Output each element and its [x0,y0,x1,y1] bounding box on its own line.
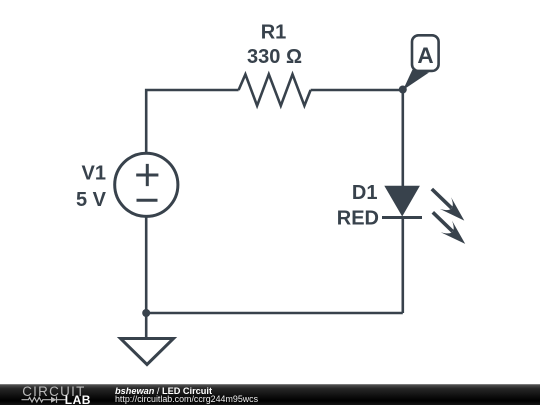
LED arrow 2 head [441,221,466,244]
LED arrow 1 head [440,197,465,220]
diode D1 LED triangle [384,186,420,217]
wire: resistor to node A junction [311,89,403,92]
svg-text:D1: D1 [352,182,378,204]
svg-text:5 V: 5 V [76,189,107,211]
svg-text:V1: V1 [82,163,106,185]
voltage source V1 circle [115,153,178,216]
svg-text:R1: R1 [261,22,287,44]
wire: bottom horizontal [146,312,403,315]
wire: node A junction down to LED anode [401,90,404,187]
footer line 1 [115,387,212,396]
LED arrow 1 shaft [432,189,452,208]
wire: LED cathode down to bottom corner [401,218,404,314]
node A pointer wedge [403,70,429,91]
ground junction dot [142,309,150,317]
svg-text:LAB: LAB [65,393,91,405]
ground symbol triangle [121,339,174,365]
diode D1 cathode bar [382,216,422,219]
wire: V1 bottom lead down to ground junction [145,217,148,314]
svg-text:A: A [417,43,433,68]
LED arrow 2 shaft [433,212,453,231]
node A junction dot [399,86,407,94]
node A label box [412,35,439,71]
svg-text:RED: RED [337,208,379,230]
V1 minus sign [137,199,158,202]
footer line 2 [115,395,258,404]
wire: ground stub [145,313,148,339]
footer CircuitLab logo [0,384,100,405]
svg-text:330 Ω: 330 Ω [247,46,302,68]
footer bar [0,384,540,405]
wire: V1 top lead up and right to resistor [146,90,238,153]
resistor R1 zigzag [239,74,311,105]
V1 plus sign [136,164,158,186]
